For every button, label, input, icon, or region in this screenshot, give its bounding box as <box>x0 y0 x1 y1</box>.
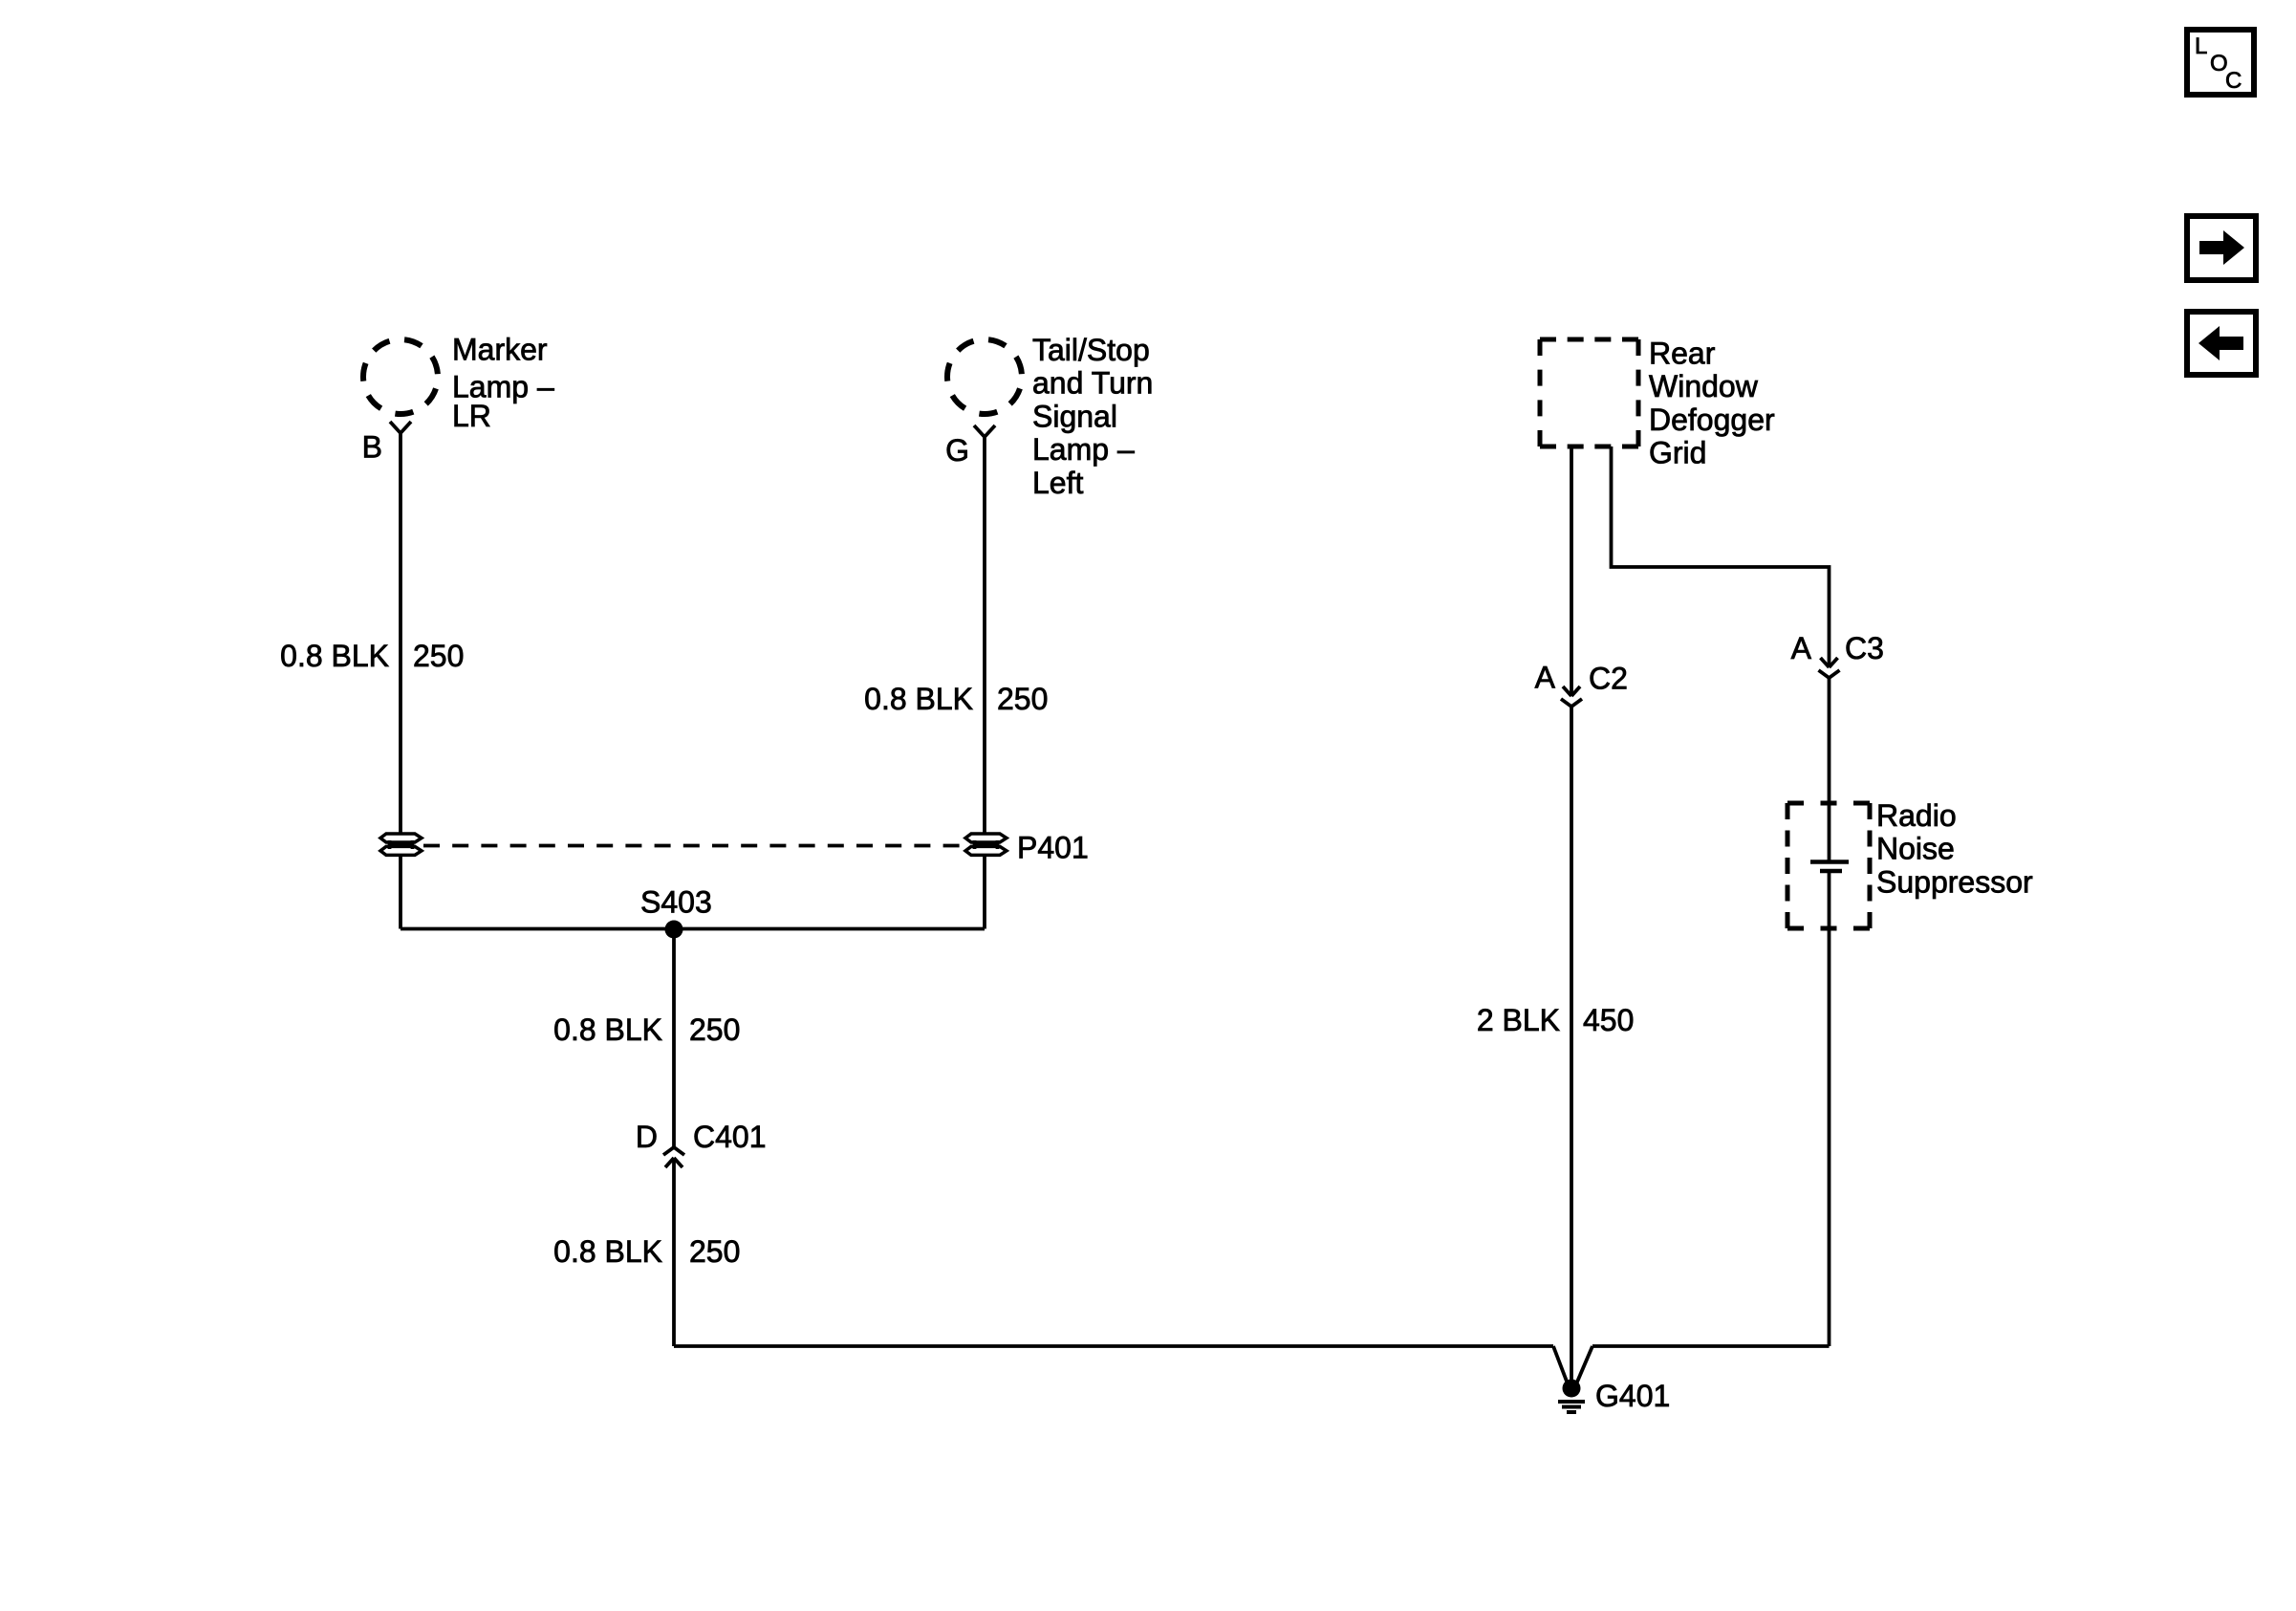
svg-text:A: A <box>1535 661 1556 695</box>
wire ground V right diagonal <box>1575 1346 1592 1386</box>
component Radio Noise Suppressor (dashed box) <box>1787 803 1870 928</box>
splice junction S403 <box>665 921 683 939</box>
wire suppressor down to bottom bus <box>1828 871 1831 1346</box>
wire S403 down to connector C401 <box>672 929 676 1147</box>
pin Y socket of tail lamp <box>974 425 995 437</box>
svg-text:C3: C3 <box>1845 631 1884 665</box>
legend LOC box <box>2187 30 2254 95</box>
svg-text:P401: P401 <box>1017 831 1089 865</box>
wire defogger right pin jog to connector C3 <box>1612 446 1830 667</box>
svg-text:L: L <box>2195 33 2207 59</box>
nav box right arrow <box>2187 216 2256 280</box>
svg-text:0.8 BLK: 0.8 BLK <box>553 1234 662 1269</box>
grommet P401 left symbol <box>380 834 422 855</box>
wire defogger left pin down to connector C2 <box>1570 446 1573 696</box>
svg-text:0.8 BLK: 0.8 BLK <box>864 682 973 716</box>
connector C2 inline symbol (down-pointing) <box>1561 686 1582 707</box>
component Rear Window Defogger Grid (dashed box) <box>1540 339 1638 446</box>
svg-text:2 BLK: 2 BLK <box>1477 1003 1560 1037</box>
ground G401 hatch <box>1558 1402 1585 1412</box>
svg-text:D: D <box>636 1120 658 1154</box>
wire C2 down to ground G401 <box>1570 707 1573 1386</box>
capacitor bottom plate (suppressor) <box>1820 869 1842 874</box>
svg-text:B: B <box>362 430 382 465</box>
grommet P401 right symbol <box>965 834 1007 855</box>
svg-text:C401: C401 <box>693 1120 767 1154</box>
svg-text:A: A <box>1791 631 1812 665</box>
svg-text:C: C <box>2225 68 2242 94</box>
wire tail lamp pin G down to splice bus <box>983 437 986 929</box>
connector C3 inline symbol (down-pointing) <box>1819 658 1840 678</box>
svg-text:0.8 BLK: 0.8 BLK <box>280 639 389 673</box>
wire horizontal splice bus <box>401 927 985 931</box>
svg-text:250: 250 <box>413 639 464 673</box>
nav box left arrow <box>2187 312 2256 375</box>
svg-text:G401: G401 <box>1595 1379 1670 1413</box>
wire C401 down to bottom bus <box>672 1158 676 1346</box>
wire ground V left diagonal <box>1553 1346 1569 1386</box>
capacitor top plate (suppressor) <box>1810 860 1849 864</box>
svg-text:G: G <box>945 433 969 468</box>
lamp Tail/Stop and Turn Signal Lamp - Left (dashed circle outline) <box>947 339 1022 414</box>
connector C401 inline symbol (up-pointing) <box>663 1147 684 1167</box>
ground G401 dot <box>1563 1380 1581 1398</box>
svg-text:0.8 BLK: 0.8 BLK <box>553 1012 662 1047</box>
wire bottom bus right segment <box>1592 1344 1830 1348</box>
dashed harness pass-through line between grommets <box>423 844 964 848</box>
svg-text:250: 250 <box>689 1012 740 1047</box>
wire C3 down to suppressor <box>1828 678 1831 862</box>
svg-text:250: 250 <box>689 1234 740 1269</box>
svg-text:250: 250 <box>997 682 1048 716</box>
wire marker lamp pin B down to splice bus <box>399 433 402 929</box>
svg-text:450: 450 <box>1583 1003 1634 1037</box>
wire bottom bus left segment <box>674 1344 1553 1348</box>
svg-text:C2: C2 <box>1589 662 1628 696</box>
pin Y socket of marker lamp <box>390 422 411 433</box>
lamp Marker Lamp - LR (dashed circle outline) <box>363 339 438 414</box>
svg-text:S403: S403 <box>640 885 712 920</box>
